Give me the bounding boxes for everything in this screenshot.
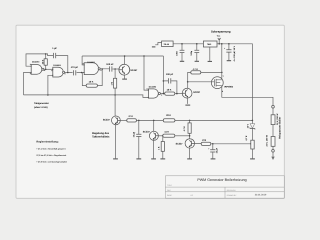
ground Q1 (122, 78, 127, 80)
transistor Q3 SC237 (gate driver) (182, 88, 192, 98)
svg-text:+ 27,1 Volt = Stromfluß gesper: + 27,1 Volt = Stromfluß gesperrt (36, 147, 65, 150)
svg-text:SC237: SC237 (176, 142, 184, 145)
transistor Q4 SC237 (regulator) (149, 131, 158, 140)
svg-text:D1/4093: D1/4093 (149, 86, 156, 89)
wire gate1 input2 to bottom rail (24, 73, 32, 95)
title block frame (165, 176, 284, 198)
svg-text:DRAWN BY: DRAWN BY (227, 194, 237, 197)
svg-text:IRF4905: IRF4905 (224, 86, 233, 89)
NAND gate U1D D1/4093 (gate4) (148, 89, 158, 98)
svg-text:10 µF: 10 µF (215, 147, 218, 153)
node junction 1M / Q1 base (114, 68, 116, 70)
capacitor 1µF (46, 54, 68, 73)
wire riser from output node down to 10K (82, 73, 86, 86)
node junction cap 10µF (138, 120, 140, 122)
capacitor 100 nF (110, 66, 112, 71)
wire (272, 125, 274, 137)
node junction R45k at gate1 output (45, 69, 47, 71)
wire MOSFET source from supply rail (221, 44, 223, 80)
node junction base/R10/11K (162, 135, 164, 137)
svg-text:s: s (223, 74, 224, 77)
svg-text:(etwa 1 KHz): (etwa 1 KHz) (34, 106, 48, 109)
node junction at zener resistor (250, 143, 252, 145)
node junction cap/resistor top (45, 53, 47, 55)
node junction 11K / Q5 collector (189, 135, 191, 137)
node junction 10K at gate3 output (101, 68, 103, 70)
capacitor 4 x 100 µF 35 V (228, 44, 230, 60)
wire U3 ground pin (209, 47, 211, 61)
wire Q2 base to 47K (120, 119, 127, 121)
node junction 470pF/gate3 input (81, 72, 83, 74)
connector top (heater) (272, 105, 275, 108)
svg-text:Heizpatrone Boiler: Heizpatrone Boiler (278, 117, 281, 139)
svg-text:D1/4093: D1/4093 (32, 61, 39, 64)
node junction Q1 collector on top rail (124, 55, 126, 57)
svg-text:27,2 bis 27,6 Volt = Regelbere: 27,2 bis 27,6 Volt = Regelbereich (36, 154, 67, 157)
resistor 1M vertical (114, 69, 116, 95)
node junction 4.7K riser (189, 120, 191, 122)
svg-text:78L06: 78L06 (164, 43, 170, 46)
wire Q5 base to 270 (195, 142, 202, 144)
svg-text:REVISION: REVISION (227, 189, 236, 192)
capacitor 100 µF (before U3) (196, 44, 198, 61)
svg-text:Taktgenerator: Taktgenerator (34, 102, 49, 105)
svg-text:10 K: 10 K (89, 80, 94, 83)
ground zener chain (250, 158, 255, 160)
svg-text:SC237: SC237 (103, 119, 111, 122)
node junction gate4 input1 drop on top rail (143, 55, 145, 57)
svg-text:30.01.2019: 30.01.2019 (255, 194, 267, 197)
wire heater return with arrow (272, 152, 274, 157)
ground Q3 (185, 104, 190, 106)
resistor 10 K series to Q3 (165, 92, 175, 95)
svg-text:4,7 K: 4,7 K (245, 135, 248, 141)
svg-text:Taktverhältnis: Taktverhältnis (92, 135, 110, 138)
MOSFET Q6 IRF4905 (211, 77, 223, 89)
regulator U3 7805 (203, 41, 217, 47)
svg-text:11 K: 11 K (164, 131, 169, 134)
svg-text:10 K: 10 K (167, 88, 172, 91)
transistor Q5 SC237 (threshold) (185, 139, 194, 148)
wire gate1 output to gate2 input1 (44, 68, 53, 70)
pin marks (30, 63, 162, 95)
resistor 10 K feedback (oscillator 2) (86, 84, 97, 87)
transistor Q2 SC237 (PWM modulator) (112, 116, 121, 125)
svg-text:24 V, 250 W: 24 V, 250 W (266, 135, 269, 146)
ground Q5 (187, 158, 192, 160)
terminal output left with ground mark (155, 43, 161, 45)
node junction gate2 input2 on bottom rail (47, 94, 49, 96)
resistor heater 24 V, 250 W (lower) (271, 137, 275, 147)
wire bottom rail (oscillator control net) (24, 95, 149, 98)
resistor 22 K series rail (163, 119, 175, 122)
wire gate4 output (161, 93, 165, 95)
node junction zener rail end (252, 120, 254, 122)
wire Q4 base node (158, 135, 162, 137)
resistor 4.7 K gate pullup (188, 72, 191, 73)
NAND gate U1B D1/4093 (gate1) (31, 65, 42, 75)
connector bottom (heater) (272, 150, 275, 153)
resistor 11 K (163, 134, 175, 137)
svg-text:24 V: 24 V (246, 123, 249, 128)
svg-text:470 pF: 470 pF (71, 66, 79, 69)
svg-text:+ 27,8 Volt = voll durchgescha: + 27,8 Volt = voll durchgeschaltet (36, 160, 67, 163)
svg-text:100µ: 100µ (190, 50, 193, 56)
svg-text:100 µF: 100 µF (166, 73, 174, 76)
wire gate1 feedback top loop (26, 54, 46, 66)
NAND gate U1C D1/4093 (gate3) (84, 63, 98, 75)
wire Q5 emitter to ground (189, 148, 191, 158)
capacitor 10 µF (filter at Q5 base) (212, 144, 214, 159)
resistor 4.7 K vertical (189, 120, 191, 138)
svg-text:SC237: SC237 (143, 130, 151, 133)
svg-text:10 µF: 10 µF (132, 131, 135, 137)
zener diode 24 V (251, 120, 253, 140)
node junction MOSFET source/pullup (221, 72, 223, 74)
drawing page (16, 25, 284, 198)
svg-text:SC467: SC467 (130, 69, 138, 72)
wire Q4 collector riser (153, 120, 155, 131)
wire gate2 input2 drop to rail (48, 75, 53, 95)
svg-text:4.7 K: 4.7 K (183, 126, 186, 132)
wire gate2 output net (65, 71, 85, 73)
node junction 100µF right leg (176, 93, 178, 95)
resistor 45K vertical (45, 54, 47, 69)
node junction 1µF on gate2 output (67, 72, 69, 74)
capacitor 470 pF (73, 71, 77, 74)
wire Q1 emitter to ground (124, 74, 126, 78)
node junction cap branch (212, 143, 214, 145)
node junction gate branch (187, 81, 189, 83)
node junction source tap on rail (221, 43, 223, 45)
capacitor 100n (after U2) (181, 44, 183, 61)
transistor Q1 SC467 (119, 64, 130, 75)
svg-text:TITLE: TITLE (167, 184, 173, 187)
ground resistor 1K (160, 158, 165, 160)
svg-text:Reglereinstellung:: Reglereinstellung: (36, 140, 58, 143)
capacitor 100 µF (parallel with 10K) (163, 81, 177, 94)
svg-text:4.7 K: 4.7 K (193, 68, 199, 71)
ground cap (211, 158, 216, 160)
wire to MOSFET gate (188, 81, 212, 83)
wire (272, 108, 274, 115)
wire Q4 emitter to ground (153, 140, 155, 158)
wire gate4 input1 drop (144, 56, 148, 90)
resistor 47 K (127, 119, 137, 122)
svg-text:47 K: 47 K (128, 115, 133, 118)
svg-text:PWM Generator Boilerheizung: PWM Generator Boilerheizung (197, 178, 246, 182)
wire Q3 emitter to ground (186, 98, 188, 104)
node junction 100µF branch (163, 80, 165, 82)
svg-text:100 nF: 100 nF (106, 63, 114, 66)
svg-text:Solarspannung: Solarspannung (211, 30, 231, 33)
node junction 1M leg on bottom rail (114, 94, 116, 96)
wire regulator rail (136, 119, 252, 121)
svg-text:1 K: 1 K (157, 146, 160, 150)
wire gate3 output (100, 68, 109, 70)
resistor heater 24 V, 250 W (upper) (271, 115, 275, 125)
svg-text:100n: 100n (175, 50, 178, 56)
resistor 4,7 K below zener (251, 140, 254, 149)
wire (272, 146, 274, 149)
ground Q4 (151, 158, 156, 160)
wire top rail (ramp net) (82, 55, 163, 57)
svg-text:22 K: 22 K (166, 114, 171, 117)
svg-text:1 M: 1 M (111, 82, 114, 86)
wire MOSFET drain to heater (222, 86, 273, 106)
svg-text:D1/4093: D1/4093 (53, 64, 60, 67)
wire ramp net drop to gate4 output side (162, 56, 164, 94)
regulator U2 78L06 (162, 41, 174, 47)
node junction Q4 collector riser (153, 120, 155, 122)
resistor 1 K to ground (162, 136, 164, 159)
wire Q3 collector up / gate node (187, 74, 189, 89)
ground cap 10µF (136, 158, 141, 160)
wire Q2 collector from control rail (114, 95, 116, 116)
svg-text:D1/4093: D1/4093 (87, 61, 94, 64)
wire riser to gate3 input1 from top rail (82, 56, 84, 65)
svg-text:45 K: 45 K (41, 59, 44, 64)
resistor 270 (201, 142, 211, 145)
capacitor 10 µF (ramp) (138, 120, 140, 158)
node junction ramp drop on output wire (163, 93, 165, 95)
wire Q2 emitter to ground (115, 125, 117, 159)
svg-text:PAGE: PAGE (167, 194, 173, 197)
svg-text:1 µF: 1 µF (52, 47, 57, 50)
NAND gate U1A D1/4093 (gate2) (53, 67, 64, 77)
svg-text:4 x 100 µF, 35 V: 4 x 100 µF, 35 V (233, 45, 236, 61)
svg-text:SC237: SC237 (193, 91, 201, 94)
wire 270 to zener node (211, 143, 251, 145)
ground Q2 (113, 158, 118, 160)
wire Q1 collector to top rail (124, 56, 126, 65)
wire supply rail Solarspannung (173, 44, 252, 121)
